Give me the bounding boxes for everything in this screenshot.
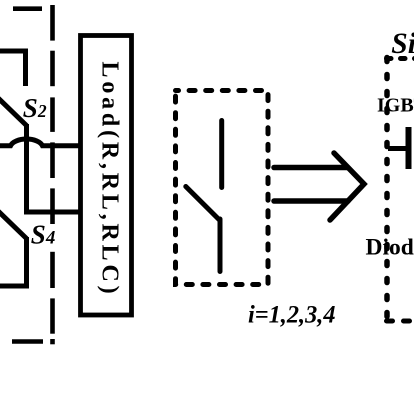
svg-text:i=1,2,3,4: i=1,2,3,4 — [248, 300, 336, 329]
svg-text:S2: S2 — [23, 93, 47, 123]
svg-text:Load(R,RL,RLC): Load(R,RL,RLC) — [96, 62, 122, 298]
svg-text:Diode: Diode — [366, 234, 414, 260]
svg-text:Si: Si — [391, 28, 414, 60]
svg-text:IGBT: IGBT — [377, 94, 414, 116]
